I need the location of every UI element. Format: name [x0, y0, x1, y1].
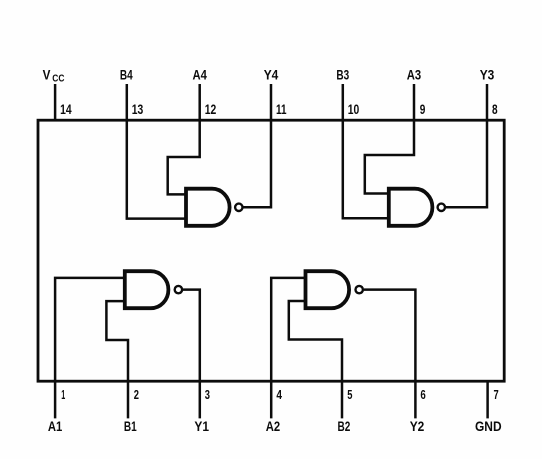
wire A4: pin 12 to gate U4 upper input [168, 120, 200, 194]
svg-text:14: 14 [60, 102, 72, 117]
svg-text:Y2: Y2 [410, 418, 425, 434]
svg-text:5: 5 [347, 387, 352, 402]
pin 14 lead (VCC) [54, 84, 57, 120]
wire B4: pin 13 to gate U4 lower input [127, 120, 186, 218]
label Y4 [264, 67, 279, 83]
pin 8 lead (Y3) [486, 84, 489, 120]
svg-text:9: 9 [420, 102, 426, 117]
svg-text:12: 12 [205, 102, 217, 117]
wire A1: pin 1 lead up to gate U1 upper input [55, 278, 125, 419]
wire Y3: gate U3 output bubble to pin 8 [446, 120, 487, 207]
svg-text:B3: B3 [336, 67, 349, 83]
label Y3 [480, 67, 495, 83]
svg-text:Y3: Y3 [480, 67, 495, 83]
svg-text:A4: A4 [193, 67, 208, 83]
svg-text:B1: B1 [124, 418, 137, 434]
label B3 [336, 67, 349, 83]
svg-text:11: 11 [276, 102, 287, 117]
label VCC [43, 67, 65, 85]
nand gate U3 body (pins 10,9 in / 8 out) [389, 189, 433, 226]
pin 10 number [348, 102, 360, 117]
pin 13 number [132, 102, 144, 117]
nand gate U1 body (pins 1,2 in / 3 out) [125, 271, 169, 308]
label B4 [120, 67, 133, 83]
svg-text:GND: GND [475, 418, 502, 434]
wire Y4: gate U4 output bubble to pin 11 [243, 120, 271, 207]
pin 5 number [347, 387, 352, 402]
IC package outline [38, 120, 504, 381]
svg-text:3: 3 [205, 387, 210, 402]
svg-text:A2: A2 [266, 418, 281, 434]
pin 12 number [205, 102, 217, 117]
svg-text:8: 8 [492, 102, 498, 117]
svg-text:4: 4 [276, 387, 282, 402]
pin 13 lead (B4) [126, 84, 129, 120]
svg-text:13: 13 [132, 102, 144, 117]
label A3 [407, 67, 422, 83]
pin 11 lead (Y4) [270, 84, 273, 120]
svg-text:A3: A3 [407, 67, 422, 83]
nand gate U4 output bubble [235, 204, 242, 211]
svg-text:1: 1 [61, 387, 65, 402]
label A4 [193, 67, 208, 83]
svg-text:Y4: Y4 [264, 67, 279, 83]
pin 14 number [60, 102, 72, 117]
nand gate U4 body (pins 13,12 in / 11 out) [186, 189, 230, 226]
nand gate U2 output bubble [356, 286, 363, 293]
svg-text:10: 10 [348, 102, 360, 117]
label A1 [48, 418, 63, 434]
pin 7 number [494, 387, 499, 402]
wire Y2: gate U2 output bubble to pin 6 lead [364, 290, 416, 419]
svg-text:V: V [43, 67, 51, 83]
pin 9 number [420, 102, 426, 117]
nand gate U2 body (pins 4,5 in / 6 out) [306, 271, 350, 308]
pin 10 lead (B3) [342, 84, 345, 120]
wire A3: pin 9 to gate U3 upper input [365, 120, 414, 193]
svg-text:B2: B2 [338, 418, 351, 434]
pin 2 number [134, 387, 139, 402]
label Y2 [410, 418, 425, 434]
pin 3 number [205, 387, 210, 402]
svg-text:6: 6 [420, 387, 425, 402]
svg-text:2: 2 [134, 387, 139, 402]
wire Y1: gate U1 output bubble to pin 3 lead [183, 290, 200, 419]
label Y1 [194, 418, 209, 434]
svg-text:A1: A1 [48, 418, 63, 434]
pin 8 number [492, 102, 498, 117]
pin 1 number [61, 387, 65, 402]
pin 12 lead (A4) [198, 84, 201, 120]
label GND [475, 418, 502, 434]
svg-text:7: 7 [494, 387, 499, 402]
wire B2: pin 5 lead up and over to gate U2 lower input [289, 301, 342, 418]
wire A2: pin 4 lead up to gate U2 upper input [271, 278, 305, 419]
pin 4 number [276, 387, 282, 402]
svg-text:Y1: Y1 [194, 418, 209, 434]
wire B1: pin 2 lead up and over to gate U1 lower input [106, 301, 128, 418]
svg-text:CC: CC [52, 73, 64, 84]
pin 11 number [276, 102, 287, 117]
label B1 [124, 418, 137, 434]
label B2 [338, 418, 351, 434]
nand gate U1 output bubble [175, 286, 182, 293]
nand gate U3 output bubble [438, 204, 445, 211]
label A2 [266, 418, 281, 434]
pin 7 lead (GND) [486, 381, 489, 418]
pin 9 lead (A3) [413, 84, 416, 120]
svg-text:B4: B4 [120, 67, 133, 83]
pin 6 number [420, 387, 425, 402]
wire B3: pin 10 to gate U3 lower input [343, 120, 389, 218]
